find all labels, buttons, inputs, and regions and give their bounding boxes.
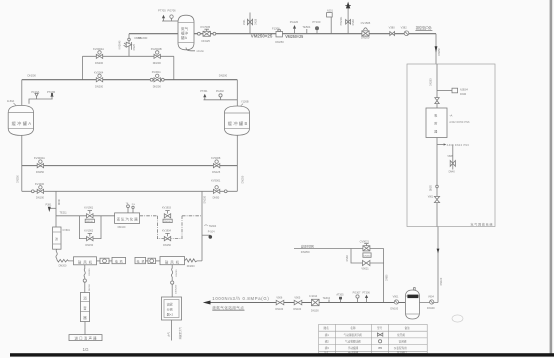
wire flex below blower B1	[84, 265, 85, 293]
svg-text:DN125: DN125	[202, 39, 211, 43]
svg-text:DN100: DN100	[440, 277, 443, 285]
valve KV3011 with flanges	[150, 74, 164, 82]
label box DN350	[363, 253, 371, 257]
valve KV2004	[96, 74, 102, 82]
svg-text:DN100: DN100	[164, 221, 172, 223]
svg-text:PG307: PG307	[353, 292, 361, 295]
wire zigzag right of blower B2	[185, 259, 203, 262]
svg-text:DN100: DN100	[427, 307, 435, 310]
svg-text:排放至大气: 排放至大气	[178, 326, 182, 339]
svg-text:DN350: DN350	[301, 250, 310, 254]
svg-text:气动薄膜调节阀: 气动薄膜调节阀	[344, 333, 363, 337]
wire separator outlet down	[171, 320, 173, 341]
svg-text:DN40: DN40	[460, 93, 467, 96]
svg-text:CV1505: CV1505	[361, 21, 371, 25]
wire main line vessel to vent corner	[194, 33, 436, 35]
svg-text:DN200: DN200	[153, 61, 162, 65]
wire flex hose below filter	[56, 249, 57, 259]
svg-text:DN40: DN40	[449, 170, 456, 173]
svg-text:KV1000: KV1000	[35, 182, 45, 186]
svg-text:DN250: DN250	[430, 78, 433, 86]
valve V904 on tank outlet	[420, 302, 439, 304]
svg-text:PG302: PG302	[216, 90, 224, 93]
wire zigzag expansion joint to blower	[57, 259, 74, 262]
instrument PT705 stem	[163, 18, 165, 21]
svg-text:DN100: DN100	[36, 195, 45, 199]
instrument TE504 stem	[306, 29, 308, 34]
muffler column	[80, 293, 89, 322]
wire city gas bypass	[351, 249, 384, 264]
wire manifold left vertical	[82, 56, 84, 79]
valve C-9014 box	[312, 299, 320, 305]
svg-text:C-9014: C-9014	[309, 295, 318, 298]
svg-text:氮气回收系统: 氮气回收系统	[471, 221, 493, 226]
svg-text:阀1: 阀1	[325, 333, 330, 337]
valve KV1901	[87, 211, 93, 218]
node flange on lower line	[31, 190, 34, 193]
svg-text:罐A: 罐A	[181, 35, 188, 40]
svg-text:DN200: DN200	[153, 85, 162, 89]
valve KV2002B	[154, 51, 160, 59]
wire discharge line upper (y165.6)	[22, 165, 238, 167]
svg-text:A302 DN50 PN6: A302 DN50 PN6	[449, 121, 470, 124]
svg-text:PT306: PT306	[362, 292, 370, 295]
instrument PT16M stem	[51, 96, 53, 99]
svg-text:KV1904: KV1904	[162, 229, 172, 232]
instrument PG302 stem	[220, 97, 222, 100]
svg-text:DN150: DN150	[163, 244, 171, 247]
valve KV3001	[213, 186, 219, 194]
svg-text:DN200: DN200	[187, 265, 195, 268]
branch arrow A303	[437, 143, 446, 145]
svg-text:型号: 型号	[377, 326, 383, 330]
label TE304 with tick	[204, 224, 207, 227]
svg-text:KV3011: KV3011	[152, 70, 162, 74]
svg-text:KV2002B: KV2002B	[151, 47, 162, 51]
legend table row texts	[324, 333, 407, 355]
svg-text:KV2004: KV2004	[94, 71, 104, 75]
svg-text:DN250: DN250	[36, 170, 45, 174]
wire manifold right vertical	[173, 56, 175, 79]
wire city gas supply line	[294, 248, 384, 250]
svg-text:图名: 图名	[324, 326, 330, 330]
svg-text:分离: 分离	[167, 307, 173, 312]
sheet bottom border bar	[10, 353, 554, 356]
wire manifold upper line	[83, 55, 174, 57]
instrument PG120 stem	[294, 29, 296, 34]
blower B1 box	[74, 257, 97, 265]
wire recovery riser	[437, 227, 439, 303]
wire main feed line from nitrogen generator	[129, 33, 178, 35]
svg-text:1G: 1G	[83, 347, 90, 352]
relief valve KV3040	[124, 42, 132, 50]
flow arrow to user	[203, 301, 211, 305]
svg-text:KV1901: KV1901	[84, 207, 94, 210]
svg-text:DN200: DN200	[28, 73, 37, 77]
svg-text:手动蝶阀: 手动蝶阀	[348, 346, 359, 350]
svg-text:≥0.2m: ≥0.2m	[197, 49, 205, 53]
instrument PG706 stem	[171, 18, 173, 21]
vessel drain line	[186, 48, 195, 51]
valve KV1903	[164, 211, 170, 218]
instrument PG307	[356, 295, 359, 303]
silencer label box	[69, 335, 102, 341]
svg-text:AT305: AT305	[336, 293, 344, 296]
svg-text:电机: 电机	[137, 259, 145, 264]
motor M1 box	[109, 257, 126, 263]
control valve CV1505	[362, 28, 369, 36]
svg-text:V382: V382	[401, 26, 408, 30]
svg-text:液氮气化站用气点: 液氮气化站用气点	[212, 305, 244, 310]
svg-text:油雾: 油雾	[167, 302, 173, 307]
svg-text:DN80: DN80	[346, 255, 349, 262]
svg-text:KV1903: KV1903	[162, 207, 172, 210]
legend table header texts	[324, 326, 411, 330]
svg-text:氮气: 氮气	[181, 26, 189, 31]
wire manifold lower line	[22, 79, 238, 81]
faint stamp ellipse	[452, 315, 463, 322]
coupling right	[146, 258, 161, 263]
svg-text:1000Nm3/h 0.8MPa(G): 1000Nm3/h 0.8MPa(G)	[212, 296, 269, 301]
svg-text:自城市管网: 自城市管网	[301, 244, 314, 248]
svg-text:TE304: TE304	[209, 225, 217, 228]
svg-text:DN200: DN200	[219, 73, 228, 77]
wire tank B feed drop	[236, 80, 238, 107]
svg-text:气动薄膜球阀: 气动薄膜球阀	[345, 340, 361, 344]
svg-text:吸: 吸	[434, 113, 437, 117]
svg-text:KV7005: KV7005	[201, 25, 211, 29]
svg-text:+A: +A	[449, 115, 452, 118]
svg-text:DN100: DN100	[311, 309, 319, 312]
branch to analyzer box A201	[327, 13, 333, 34]
svg-text:名称: 名称	[350, 326, 356, 330]
svg-text:V201: V201	[243, 19, 246, 25]
nitrogen recovery system boundary box	[407, 64, 495, 227]
flow arrow down on riser	[437, 249, 440, 254]
svg-text:A2B3/4: A2B3/4	[460, 88, 469, 91]
svg-text:常开阀: 常开阀	[397, 333, 405, 337]
relief vent branch PSV at x348	[345, 3, 350, 34]
vessel V701 name text	[181, 26, 189, 40]
node circle	[171, 281, 174, 284]
svg-text:大气: 大气	[166, 331, 170, 337]
vessel V701 nitrogen buffer drum	[178, 15, 194, 50]
svg-text:KV3001: KV3001	[211, 179, 221, 183]
valve KV2002A	[96, 51, 102, 59]
svg-text:PT16M: PT16M	[47, 91, 55, 94]
instrument PT301 stem	[204, 97, 206, 100]
svg-text:DN200: DN200	[176, 269, 178, 277]
svg-text:DN300: DN300	[89, 283, 91, 291]
wire tank A bottom drop	[21, 135, 23, 191]
svg-text:DN125: DN125	[212, 170, 221, 174]
svg-text:TE304: TE304	[323, 297, 331, 300]
svg-text:VM250×25: VM250×25	[251, 34, 273, 39]
svg-text:仪表配专用: 仪表配专用	[394, 346, 407, 350]
svg-text:PC16A: PC16A	[31, 91, 39, 94]
svg-text:KV2002A: KV2002A	[93, 47, 104, 51]
svg-text:备注: 备注	[405, 326, 411, 330]
svg-text:常闭阀: 常闭阀	[399, 340, 407, 344]
branch to A2B3	[437, 88, 458, 93]
svg-text:器×2: 器×2	[167, 313, 174, 317]
svg-text:阀2: 阀2	[325, 340, 330, 344]
node circle on exhaust	[83, 279, 86, 282]
oil mist separator	[162, 297, 182, 320]
svg-text:滤: 滤	[55, 236, 58, 241]
instruments above vaporizer	[126, 203, 136, 213]
wire dash-dot vaporizer outlet	[140, 215, 158, 217]
svg-text:DN250: DN250	[275, 40, 284, 44]
svg-text:V9021: V9021	[361, 267, 369, 270]
wire recovery internal line	[436, 64, 438, 227]
node flange right on lower line	[224, 190, 227, 193]
svg-text:V906: V906	[276, 296, 282, 299]
wire corner down to recovery box	[435, 34, 437, 64]
tank B buffer vessel	[224, 106, 249, 135]
valve V382 globe	[404, 31, 409, 36]
wire tank A instrument header	[29, 99, 53, 104]
legend symbol glyphs	[377, 333, 382, 349]
svg-text:DN40: DN40	[59, 198, 61, 205]
wire tank B instrument header	[204, 99, 238, 101]
svg-text:DN250: DN250	[241, 175, 244, 183]
svg-text:CV601: CV601	[63, 229, 71, 232]
flow arrow down	[435, 46, 438, 52]
svg-text:DN200: DN200	[95, 61, 104, 65]
svg-text:CV9021: CV9021	[360, 239, 370, 243]
wire bypass riser down	[383, 249, 385, 303]
valve KV1904	[164, 233, 170, 240]
svg-text:DN25: DN25	[431, 184, 433, 191]
svg-text:DN100: DN100	[118, 226, 126, 229]
svg-text:DN300: DN300	[89, 268, 91, 276]
vent branch valve at x250	[247, 13, 252, 34]
svg-text:1L50A: 1L50A	[7, 100, 15, 103]
svg-text:缓冲: 缓冲	[181, 31, 189, 36]
svg-text:阀3: 阀3	[325, 346, 330, 350]
wire riser x202	[201, 191, 203, 261]
wire muffler to silencer label	[84, 322, 86, 335]
valve V905	[294, 300, 302, 305]
wire tank A feed drop	[21, 80, 23, 106]
instrument PT306	[365, 295, 368, 303]
svg-text:A303 DN40 PN6: A303 DN40 PN6	[447, 144, 470, 147]
svg-text:DN200: DN200	[59, 264, 67, 267]
svg-text:DN250: DN250	[438, 48, 441, 56]
svg-text:Y126B: Y126B	[241, 101, 249, 104]
svg-text:V905: V905	[294, 296, 300, 299]
svg-text:DN100: DN100	[275, 308, 283, 311]
valve V805 on stub	[450, 145, 455, 170]
svg-text:鼓风机: 鼓风机	[78, 259, 93, 264]
instrument AT305	[339, 297, 342, 303]
wire product line bottom	[210, 302, 406, 304]
control valve CV9021	[363, 244, 370, 251]
svg-text:DN200: DN200	[204, 195, 207, 203]
svg-text:DN100: DN100	[86, 221, 94, 223]
wire instrument header above vessel	[162, 20, 178, 22]
valve V380	[390, 32, 395, 36]
svg-text:KV1902: KV1902	[84, 229, 94, 232]
valve on internal line	[435, 98, 439, 104]
svg-text:排空至户外: 排空至户外	[416, 25, 433, 30]
wire relief branch down at x129	[128, 34, 130, 57]
svg-text:PG: PG	[132, 204, 135, 206]
svg-text:DN350: DN350	[364, 255, 372, 257]
wire left drop to filter (x56)	[55, 191, 57, 227]
svg-text:KV3040: KV3040	[119, 40, 122, 50]
svg-text:V904: V904	[428, 296, 434, 299]
svg-text:DN80: DN80	[385, 274, 388, 281]
svg-text:附: 附	[434, 120, 437, 125]
svg-text:电机: 电机	[115, 259, 123, 264]
vent stub with arrow P381	[48, 207, 56, 212]
svg-text:V901: V901	[393, 296, 399, 299]
node flange circle on relief branch	[128, 38, 131, 41]
svg-text:PT160: PT160	[312, 20, 320, 24]
legend table frame	[319, 324, 428, 353]
blower B2 box	[160, 257, 185, 265]
motor M2 box	[135, 257, 146, 263]
instrument PC16A stem	[36, 97, 38, 99]
svg-text:V380: V380	[389, 26, 396, 30]
svg-text:PSV301: PSV301	[340, 16, 343, 25]
scan right edge strip	[550, 0, 553, 357]
svg-text:A201: A201	[327, 9, 333, 12]
wire bypass left loop	[79, 216, 101, 239]
svg-text:TE504: TE504	[302, 25, 310, 29]
svg-text:1#DN200: 1#DN200	[176, 284, 178, 294]
svg-text:DN100: DN100	[390, 308, 398, 311]
svg-text:KV3008: KV3008	[211, 156, 221, 160]
label box DN100	[163, 219, 172, 223]
wire dash-dot to riser	[182, 215, 202, 217]
svg-text:F1206: F1206	[272, 27, 280, 31]
valve KV3008	[213, 160, 219, 168]
node circle on internal line	[436, 185, 439, 188]
svg-text:鼓风机: 鼓风机	[165, 259, 180, 264]
svg-text:VM250×25: VM250×25	[285, 34, 303, 39]
svg-text:液氮汽化器: 液氮汽化器	[117, 217, 139, 222]
svg-text:DN200: DN200	[95, 84, 104, 88]
svg-text:DN150: DN150	[85, 244, 93, 247]
instrument TE304 stem	[328, 300, 330, 303]
adsorber box	[426, 108, 447, 138]
receiver tank T901	[405, 290, 419, 319]
tank T901 dark name band	[407, 295, 418, 299]
svg-text:DN80: DN80	[352, 19, 355, 26]
valve KV3002A	[37, 160, 43, 168]
filter column F601	[53, 227, 61, 249]
svg-text:DN100: DN100	[293, 308, 301, 311]
svg-text:V801: V801	[428, 197, 434, 199]
valve V906	[276, 300, 284, 305]
svg-text:PT301: PT301	[200, 90, 208, 93]
valve KV1902	[87, 233, 93, 240]
wire bypass right loop dash-dot	[157, 216, 182, 239]
wire flex below blower B2	[171, 265, 172, 297]
svg-text:KV3002A: KV3002A	[34, 156, 45, 160]
svg-text:TE211: TE211	[60, 211, 68, 214]
vaporizer E101 box	[115, 213, 140, 224]
svg-text:DN55: DN55	[135, 36, 142, 40]
valve V9021	[363, 260, 370, 265]
svg-text:DN25: DN25	[255, 18, 258, 25]
valve V901 globe	[394, 300, 398, 304]
wire vaporizer line (y215.8)	[56, 215, 115, 217]
wire tank B bottom drop	[236, 135, 238, 191]
label box DN100	[85, 219, 94, 223]
svg-text:DN25: DN25	[133, 43, 136, 50]
svg-text:DN200: DN200	[361, 36, 370, 40]
svg-text:P-104: P-104	[208, 231, 215, 234]
valve KV1000	[37, 186, 43, 194]
svg-text:PG120: PG120	[290, 20, 299, 24]
svg-text:P381: P381	[46, 203, 52, 206]
svg-text:PG706: PG706	[168, 9, 177, 13]
svg-text:DN50: DN50	[213, 195, 220, 199]
instrument PT160	[316, 30, 318, 34]
coupling left	[97, 258, 110, 263]
valve V801 on internal line	[428, 196, 440, 202]
flow element F1206	[276, 30, 282, 37]
svg-text:DN250: DN250	[17, 175, 20, 183]
control valve KV7005 with flanges	[198, 32, 201, 35]
svg-text:器: 器	[434, 129, 437, 133]
wire discharge line lower (y191.3)	[22, 190, 238, 192]
tank A buffer vessel	[8, 105, 33, 135]
svg-text:PT705: PT705	[158, 9, 166, 13]
